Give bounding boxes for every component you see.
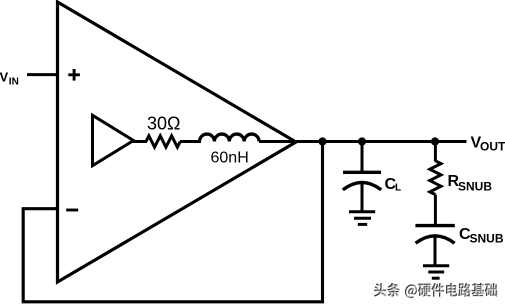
svg-text:SNUB: SNUB	[470, 232, 504, 246]
minus sign (- input)	[66, 209, 78, 212]
ground (CSNUB)	[423, 266, 449, 279]
feedback wire	[23, 142, 322, 302]
svg-text:60nH: 60nH	[211, 150, 249, 167]
wire buffer to R	[132, 140, 147, 143]
node RSNUB junction	[431, 137, 439, 145]
buffer triangle (inside op-amp)	[93, 115, 134, 165]
svg-text:L: L	[395, 183, 401, 194]
watermark toutiao	[374, 283, 498, 299]
wire VIN to + input	[27, 73, 57, 76]
svg-text:V: V	[0, 70, 9, 85]
node feedback junction	[318, 137, 326, 145]
inductor 60nH	[200, 134, 260, 141]
resistor RSNUB	[430, 161, 441, 195]
svg-text:SNUB: SNUB	[458, 179, 492, 193]
svg-text:IN: IN	[9, 77, 19, 88]
capacitor CSNUB	[415, 226, 454, 266]
output wire	[259, 140, 467, 143]
wire R to L	[180, 140, 201, 143]
wire RSNUB to CSNUB	[434, 195, 437, 226]
svg-text:OUT: OUT	[480, 139, 505, 153]
resistor 30ohm	[146, 136, 180, 147]
wire CL lead	[361, 142, 364, 173]
capacitor CL	[343, 172, 381, 212]
wire RSNUB lead	[434, 142, 437, 162]
ground (CL)	[349, 212, 375, 225]
svg-text:30Ω: 30Ω	[147, 114, 180, 134]
op-amp U1	[58, 2, 297, 282]
plus sign (+ input)	[68, 69, 80, 81]
node CL junction	[358, 137, 366, 145]
